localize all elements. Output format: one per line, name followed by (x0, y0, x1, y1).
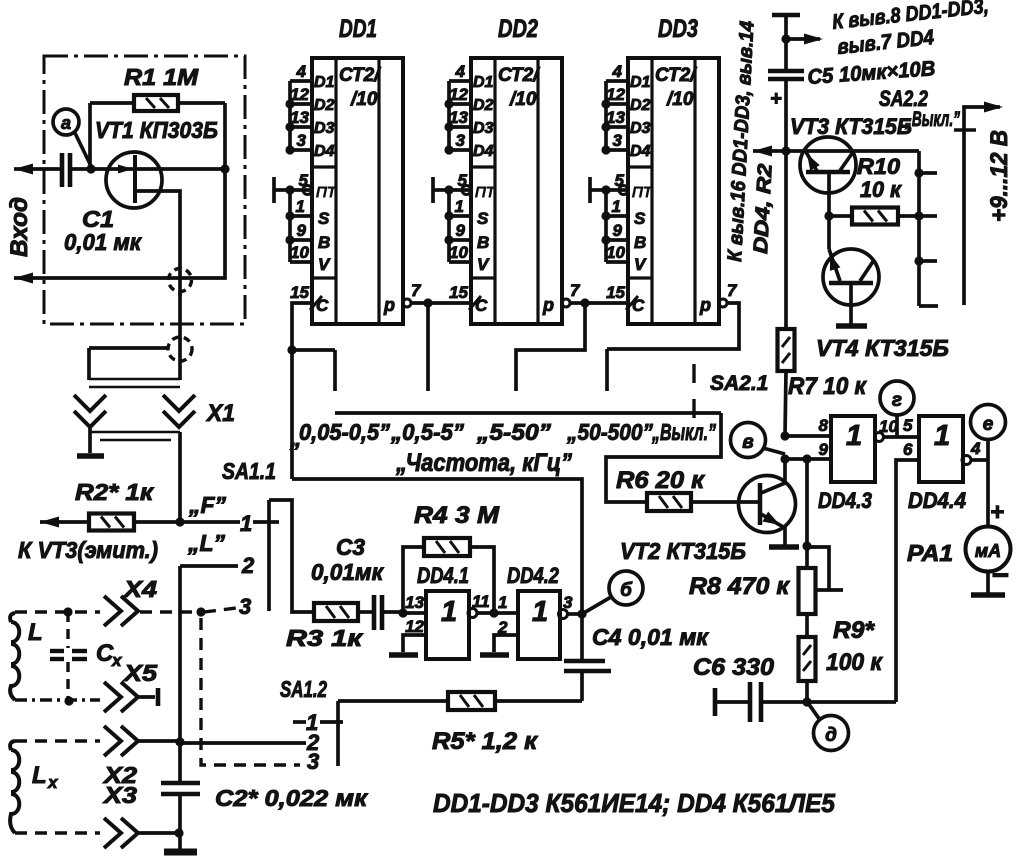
svg-text:R4 3 М: R4 3 М (414, 502, 500, 529)
svg-text:+9...12 В: +9...12 В (986, 130, 1013, 222)
resistor R1 (90, 64, 225, 111)
switch SA1.1 contact 2 "L" (180, 530, 255, 578)
svg-text:R6 20 к: R6 20 к (616, 467, 706, 494)
svg-text:„Выкл.”: „Выкл.” (904, 108, 960, 131)
resistor R3 (286, 603, 372, 651)
ground (C2) (164, 849, 197, 856)
wire block to connector X1 (178, 292, 182, 340)
svg-text:3: 3 (239, 594, 251, 619)
wire VT2 emitter to ground (783, 527, 787, 546)
switch SA2.1 contact 2 stub (426, 303, 430, 391)
svg-text:DD4, R2: DD4, R2 (750, 163, 777, 254)
node d junction (802, 697, 896, 706)
connector X4 (104, 576, 157, 626)
wire Lx top to X2 (dashed) (15, 739, 100, 742)
ground (PA1) (971, 559, 1009, 595)
node F junction (175, 517, 184, 526)
svg-text:„Частота, кГц”: „Частота, кГц” (395, 449, 572, 477)
svg-text:DD3: DD3 (658, 15, 698, 43)
svg-text:1: 1 (441, 596, 457, 628)
svg-text:R8 470 к: R8 470 к (689, 573, 791, 600)
counter DD1 (274, 15, 422, 324)
node d (808, 703, 849, 751)
svg-text:C4 0,01 мк: C4 0,01 мк (592, 624, 709, 650)
svg-text:0,01мк: 0,01мк (311, 559, 384, 585)
wire DD4.4 out to meter (970, 458, 988, 462)
inductor L (10, 613, 43, 700)
capacitor C5 (768, 57, 936, 152)
svg-text:+: + (770, 88, 782, 110)
svg-text:К VT3(эмит.): К VT3(эмит.) (18, 537, 158, 563)
ground (DD4.1 pin12) (389, 635, 426, 655)
svg-text:х: х (111, 651, 123, 670)
screened input block boundary (44, 56, 245, 324)
wire X2 to node (138, 737, 185, 746)
switch SA2.1 pole link (dashed) (694, 364, 768, 418)
switch SA2.1 contact 3 stub (516, 303, 585, 391)
svg-text:1: 1 (934, 420, 950, 452)
svg-text:1: 1 (240, 511, 252, 536)
svg-text:„F”: „F” (188, 492, 227, 518)
svg-text:DD1: DD1 (339, 15, 377, 43)
svg-text:R9*: R9* (833, 617, 876, 644)
ground (X1 shield) (77, 427, 104, 456)
svg-text:VT1 КП303Б: VT1 КП303Б (95, 117, 218, 143)
svg-text:X1: X1 (205, 400, 235, 427)
svg-text:X4: X4 (122, 576, 158, 602)
input arrow (lower) / screen line (14, 169, 225, 284)
svg-text:L: L (28, 619, 43, 646)
svg-text:„50-500”: „50-500” (566, 419, 653, 445)
wire SA1.1 pole to oscillator (269, 500, 314, 612)
R10 collector rail (914, 151, 938, 306)
svg-text:C5 10мк×10В: C5 10мк×10В (807, 57, 936, 89)
counter DD3 (590, 15, 738, 324)
gate DD4.3 (780, 416, 883, 513)
svg-text:DD1-DD3 К561ИЕ14; DD4 К561Л: DD1-DD3 К561ИЕ14; DD4 К561ЛЕ5 (433, 788, 835, 818)
counter DD2 (433, 15, 581, 324)
svg-text:−: − (991, 559, 1009, 592)
wire DD1 p7 to DD2 C (411, 298, 471, 307)
node e (971, 405, 1006, 461)
switch SA1.2 pole bar (336, 701, 340, 766)
svg-text:0,05-0,5”: 0,05-0,5” (299, 419, 390, 445)
svg-text:„L”: „L” (187, 530, 226, 556)
svg-text:х: х (47, 773, 59, 792)
wire R1 left to gate node (86, 103, 95, 174)
connector X2 (102, 726, 138, 788)
node b (582, 571, 643, 614)
svg-text:DD4.4: DD4.4 (908, 488, 966, 513)
svg-text:R3 1к: R3 1к (286, 625, 364, 651)
svg-text:SA1.2: SA1.2 (280, 676, 327, 702)
range labels (289, 419, 716, 451)
svg-text:„5-50”: „5-50” (476, 419, 552, 445)
label Вход (6, 197, 33, 257)
svg-text:X3: X3 (102, 782, 138, 808)
svg-text:R7 10 к: R7 10 к (788, 373, 868, 400)
wire X4 to SA1.1 contact 3 (dashed) (140, 610, 201, 613)
wire DD4.4 pin6 to node d (896, 460, 919, 702)
svg-text:DD4.2: DD4.2 (507, 563, 560, 588)
svg-text:VT4 КТ315Б: VT4 КТ315Б (816, 335, 949, 361)
resistor R9 (799, 614, 884, 702)
node g (880, 381, 914, 437)
transistor VT1 (field-effect) (70, 117, 224, 268)
svg-text:DD4.1: DD4.1 (417, 563, 469, 588)
svg-text:1: 1 (846, 420, 862, 452)
svg-text:6: 6 (903, 440, 913, 459)
svg-text:C3: C3 (336, 534, 365, 560)
label K VT3 (emitter) (18, 537, 158, 563)
resistor R8 (689, 454, 816, 614)
svg-text:1: 1 (532, 596, 548, 628)
resistor R10 (852, 154, 919, 225)
switch SA1.1 label (222, 458, 276, 484)
switch SA1.1 contact 1 "F" (180, 492, 279, 536)
wire VT3 emitter line (753, 146, 919, 157)
inductor Lx (10, 741, 59, 833)
svg-text:б: б (620, 580, 633, 601)
svg-text:а: а (61, 113, 71, 133)
resistor R5 (338, 692, 582, 755)
wire to DD supply pins (786, 0, 990, 59)
svg-text:C6 330: C6 330 (693, 654, 775, 681)
transistor VT4 (816, 249, 949, 361)
wire VT2 collector rail (783, 459, 787, 484)
wire L top to X4 (dashed) (15, 610, 100, 613)
svg-text:13: 13 (405, 593, 424, 612)
wire DD4.1 out to DD4.2 in (476, 593, 518, 637)
switch SA1.2 contact 2 (180, 730, 320, 755)
svg-text:1: 1 (498, 593, 507, 612)
connector X1 (74, 337, 235, 440)
switch SA1.1 contact 3 (196, 594, 251, 619)
caption IC types (433, 788, 835, 818)
switch SA2.2 (879, 86, 976, 131)
R8 tap link (807, 547, 843, 590)
svg-text:мА: мА (975, 541, 1001, 561)
gate DD4.2 (507, 563, 573, 659)
svg-text:0,01 мк: 0,01 мк (64, 229, 142, 255)
wire DD2 p7 to DD3 C (570, 298, 628, 307)
svg-text:г: г (892, 390, 902, 411)
svg-text:VT3 КТ315Б: VT3 КТ315Б (790, 114, 912, 139)
wire X3 to node (138, 828, 184, 837)
svg-text:в: в (742, 432, 753, 453)
connector X3 (102, 782, 138, 848)
screen/coax pass-through (upper) (169, 266, 192, 296)
supply tie point (772, 15, 800, 71)
capacitor C6 (693, 654, 807, 722)
ground (VT4) (836, 323, 867, 329)
svg-text:X5: X5 (122, 660, 159, 686)
svg-text:DD2: DD2 (498, 15, 538, 43)
wire SA1.1 contact 2 down to X2 node (178, 566, 182, 741)
input arrow (upper) (14, 164, 62, 175)
resistor R2 (40, 479, 180, 531)
svg-text:L: L (32, 762, 47, 789)
capacitor C1 (62, 153, 142, 255)
svg-text:DD4.3: DD4.3 (818, 488, 872, 513)
svg-text:9: 9 (819, 440, 829, 459)
svg-text:PA1: PA1 (907, 540, 953, 566)
connector X5 (104, 660, 158, 712)
resistor R4 (403, 502, 500, 613)
capacitor Cx (dashed leads) (50, 607, 123, 705)
wire Lx bottom to X3 (dashed) (15, 831, 100, 834)
svg-text:е: е (983, 414, 994, 435)
capacitor C4 (564, 614, 709, 701)
svg-text:2: 2 (241, 553, 255, 578)
svg-text:8: 8 (819, 416, 829, 435)
resistor R7 (778, 152, 868, 436)
wire DD3 p7 to SA2.1 contact 4 (607, 303, 739, 349)
capacitor C3 (311, 534, 403, 630)
wire VT3 base to R10 (824, 172, 852, 249)
svg-text:5: 5 (903, 416, 913, 435)
svg-text:4: 4 (970, 439, 981, 458)
capacitor C2 (161, 741, 368, 849)
wire R1 right to drain node (220, 103, 229, 174)
svg-text:R5* 1,2 к: R5* 1,2 к (432, 728, 539, 755)
wire VT4 emitter to ground (849, 283, 853, 324)
wire oscillator output to counters clock (feedback) (292, 479, 582, 614)
svg-text:Вход: Вход (6, 197, 33, 257)
svg-text:R2* 1к: R2* 1к (75, 479, 154, 505)
label to DD supply (rotated) (724, 20, 777, 262)
node DD4.1 input (398, 608, 407, 617)
svg-text:SA2.1: SA2.1 (710, 372, 768, 395)
svg-text:R1 1М: R1 1М (124, 64, 199, 90)
switch SA1.2 contact 3 (307, 749, 319, 774)
wire DD4.3 out to DD4.4 in (879, 416, 919, 437)
svg-text:3: 3 (563, 593, 573, 612)
svg-text:3: 3 (307, 749, 319, 774)
ground (DD4.2 pin2) (480, 635, 518, 655)
svg-text:SA1.1: SA1.1 (222, 458, 276, 484)
resistor R6 (616, 467, 760, 511)
switch SA1.2 contact 1 (293, 710, 343, 735)
switch SA2.1 contact 4 stub (605, 349, 609, 391)
gate DD4.4 (903, 416, 981, 513)
svg-text:C2* 0,022 мк: C2* 0,022 мк (215, 785, 368, 811)
node v (731, 423, 786, 458)
svg-text:100 к: 100 к (826, 649, 884, 676)
svg-text:R10: R10 (857, 154, 901, 179)
switch SA2.1 common bar (335, 411, 721, 415)
meter PA1 (907, 460, 1011, 572)
wire X1 to node F (178, 432, 182, 522)
wire SA2.1 common to R6 (606, 413, 721, 502)
ground (VT2) (769, 544, 799, 550)
svg-text:д: д (825, 725, 837, 746)
node a (53, 109, 91, 166)
wire L bottom to X5 (dash-dot) (15, 698, 100, 701)
switch SA1.1 pole bar (267, 500, 271, 611)
svg-text:VT2 КТ315Б: VT2 КТ315Б (620, 538, 746, 564)
wire SA1.1 contact3 to SA1.2 contact3 (dashed) (201, 618, 300, 765)
svg-text:+: + (990, 499, 1004, 526)
label Частота кГц (395, 449, 572, 477)
wire DD4.2 out to node b (567, 609, 587, 618)
switch SA1.2 label (280, 676, 327, 702)
wire clock input DD1 (287, 303, 312, 479)
svg-text:10 к: 10 к (860, 177, 903, 202)
supply rail +9..12V (964, 102, 1013, 306)
transistor VT3 (790, 114, 912, 193)
switch SA2.1 contact 1 stub (292, 350, 335, 391)
transistor VT2 (620, 476, 796, 565)
svg-text:„Выкл.”: „Выкл.” (651, 419, 716, 445)
gate DD4.1 (403, 563, 490, 659)
svg-text:„0,5-5”: „0,5-5” (390, 419, 464, 445)
